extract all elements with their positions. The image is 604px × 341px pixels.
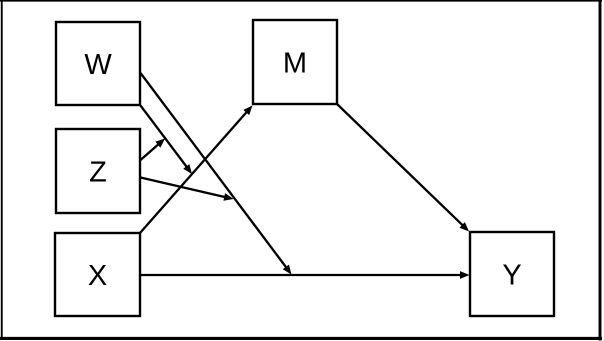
svg-text:Y: Y [502, 260, 521, 292]
box X [55, 233, 140, 316]
svg-text:X: X [88, 260, 107, 292]
arrow W to X-Y path [141, 73, 292, 275]
arrow W to X-M path [141, 106, 193, 175]
svg-text:M: M [283, 48, 307, 80]
svg-text:W: W [84, 49, 112, 81]
box Z [56, 129, 140, 213]
arrow Z to W-XY arrow [141, 178, 234, 201]
svg-text:Z: Z [89, 157, 107, 189]
arrow M to Y [337, 104, 469, 232]
box Y [470, 232, 554, 316]
arrow Z to W-XM arrow [141, 139, 166, 161]
arrow X to M [140, 105, 253, 233]
arrow X to Y [140, 271, 470, 279]
box M [253, 20, 337, 104]
box W [56, 22, 140, 105]
